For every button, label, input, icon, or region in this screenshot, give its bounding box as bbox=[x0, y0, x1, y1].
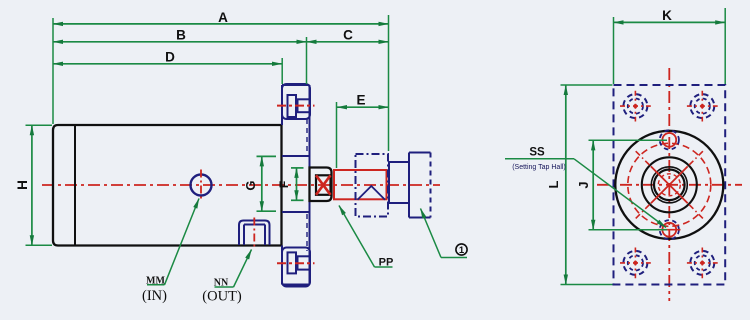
mounting hole bottom-right bbox=[687, 248, 718, 279]
center boss circle bbox=[642, 157, 697, 212]
svg-text:(Setting Tap Hall): (Setting Tap Hall) bbox=[512, 164, 566, 171]
dimension C bbox=[307, 28, 389, 43]
svg-text:L: L bbox=[546, 180, 561, 188]
svg-text:SS: SS bbox=[529, 147, 545, 159]
dimension E bbox=[337, 93, 389, 108]
rod thread box symbol bbox=[316, 175, 331, 195]
extension line J top bbox=[589, 139, 668, 141]
label NN (OUT) bbox=[202, 250, 251, 305]
svg-text:J: J bbox=[577, 181, 591, 188]
rod circle inner bbox=[654, 170, 685, 201]
label circled 1 bbox=[421, 209, 468, 258]
extension line J bottom bbox=[589, 229, 668, 231]
svg-text:A: A bbox=[218, 10, 228, 25]
center line horizontal (end view) bbox=[597, 184, 742, 186]
wire center line (main horizontal axis, left view) bbox=[42, 184, 440, 186]
extension line H top bbox=[26, 124, 53, 126]
rod gland boss bbox=[310, 168, 332, 202]
mounting hole top-left bbox=[620, 91, 651, 122]
flange plate outline (end view, phantom) bbox=[614, 85, 726, 285]
extension line D right bbox=[281, 58, 283, 84]
cylinder body bbox=[53, 125, 282, 246]
dimension A bbox=[53, 10, 389, 25]
svg-text:E: E bbox=[356, 93, 365, 108]
svg-text:(IN): (IN) bbox=[142, 288, 167, 304]
rod end spacer bbox=[389, 162, 409, 203]
extension line H bottom bbox=[26, 244, 53, 246]
svg-text:K: K bbox=[662, 8, 672, 23]
bottom bolt center line bbox=[277, 262, 315, 264]
svg-text:MM: MM bbox=[146, 276, 165, 287]
dimension G bbox=[243, 156, 276, 211]
port NN (side view) bbox=[239, 221, 270, 246]
dimension B bbox=[53, 28, 307, 43]
svg-text:G: G bbox=[243, 180, 258, 190]
extension line B C bbox=[306, 37, 308, 84]
accessory nut (phantom) bbox=[356, 154, 389, 217]
extension line left (A B D) bbox=[52, 18, 54, 124]
dimension F bbox=[277, 168, 304, 200]
svg-text:NN: NN bbox=[214, 278, 229, 289]
svg-text:D: D bbox=[165, 50, 175, 65]
rod end part (hidden edges) bbox=[409, 153, 431, 218]
extension line K right bbox=[724, 8, 726, 84]
rod thread circle (red) bbox=[658, 174, 680, 196]
dimension H bbox=[15, 125, 32, 245]
tap hole SS top bbox=[660, 130, 679, 149]
port MM circle bbox=[191, 170, 212, 201]
top bolt center line bbox=[277, 105, 315, 107]
diagonal center lines (45 deg) bbox=[634, 149, 705, 220]
pilot circle (large) bbox=[615, 131, 723, 239]
svg-text:B: B bbox=[176, 28, 186, 43]
extension line L bottom bbox=[561, 284, 613, 286]
extension line A C E right bbox=[388, 15, 390, 151]
label SS (Setting Tap Hall) bbox=[505, 147, 666, 228]
svg-text:H: H bbox=[15, 180, 30, 190]
svg-text:(OUT): (OUT) bbox=[202, 289, 242, 305]
extension line K left bbox=[613, 17, 615, 84]
flange plate (side view) bbox=[282, 85, 310, 285]
svg-text:PP: PP bbox=[379, 257, 394, 269]
mounting hole bottom-left bbox=[620, 248, 651, 279]
bottom mounting bolt (side view) bbox=[282, 248, 310, 287]
port NN center line bbox=[253, 218, 255, 250]
svg-text:F: F bbox=[277, 181, 291, 188]
extension line E left bbox=[336, 102, 338, 168]
red spokes bbox=[651, 166, 688, 203]
center line vertical (end view) bbox=[668, 68, 670, 301]
label PP bbox=[339, 206, 393, 269]
dimension L bbox=[546, 85, 566, 285]
label MM (IN) bbox=[142, 199, 199, 305]
extension line L top bbox=[561, 84, 613, 86]
svg-text:C: C bbox=[343, 28, 353, 43]
dimension D bbox=[53, 50, 282, 65]
mounting hole top-right bbox=[687, 91, 718, 122]
bolt circle (red dashed) bbox=[628, 143, 711, 226]
rod circle outer bbox=[651, 167, 687, 203]
tap hole SS bottom bbox=[658, 220, 681, 239]
dimension K bbox=[614, 8, 726, 23]
top mounting bolt (side view) bbox=[282, 84, 310, 119]
svg-text:1: 1 bbox=[459, 245, 465, 256]
threaded rod section bbox=[334, 170, 387, 199]
dimension J bbox=[577, 140, 593, 229]
